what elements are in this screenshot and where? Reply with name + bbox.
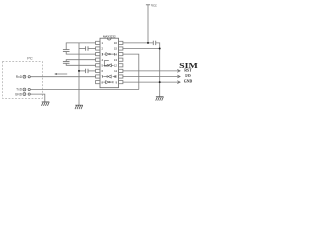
svg-text:RxD: RxD <box>16 75 23 79</box>
svg-text:MAX3232: MAX3232 <box>103 35 116 39</box>
svg-text:TxD: TxD <box>16 88 23 92</box>
svg-text:Vcc: Vcc <box>151 3 157 7</box>
svg-text:GND: GND <box>184 80 193 84</box>
svg-text:15: 15 <box>114 47 118 51</box>
svg-text:11: 11 <box>114 69 117 73</box>
svg-text:12: 12 <box>114 64 118 68</box>
svg-text:14: 14 <box>114 52 118 56</box>
svg-text:RST: RST <box>184 68 192 72</box>
svg-text:10: 10 <box>114 75 118 79</box>
svg-text:13: 13 <box>114 58 118 62</box>
svg-text:I/O: I/O <box>185 74 191 78</box>
svg-text:PC: PC <box>27 55 33 60</box>
svg-text:16: 16 <box>114 41 118 45</box>
svg-text:GND: GND <box>15 92 23 96</box>
